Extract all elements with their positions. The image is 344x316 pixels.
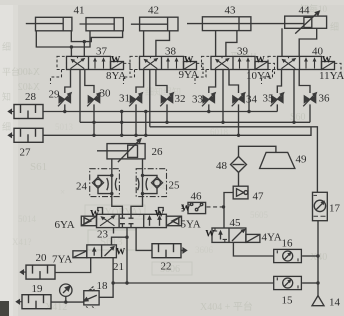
svg-text:44: 44 xyxy=(299,5,311,17)
svg-text:45: 45 xyxy=(230,217,242,229)
interlink riser 2 B1-B4 xyxy=(145,112,147,136)
cylinder C2 (group 41, right) xyxy=(80,18,124,31)
wire throttle31 to bus B4 xyxy=(135,104,137,135)
svg-text:细: 细 xyxy=(2,121,11,132)
svg-text:49: 49 xyxy=(296,154,308,166)
svg-text:X400: X400 xyxy=(18,67,40,78)
svg-text:W: W xyxy=(116,248,126,258)
throttle R31 xyxy=(129,92,143,107)
junction pilot46 xyxy=(222,205,225,208)
bus B2 xyxy=(80,121,310,123)
svg-text:24: 24 xyxy=(76,181,88,193)
wire 48 to muffler 49 xyxy=(239,146,276,156)
svg-text:27: 27 xyxy=(20,147,32,159)
throttle R32 xyxy=(160,92,174,107)
svg-text:26: 26 xyxy=(152,146,164,158)
svg-text:W: W xyxy=(155,210,165,220)
svg-text:10YA: 10YA xyxy=(246,70,272,82)
filter 48 xyxy=(231,157,247,173)
wire C5 rod-end to valve40 xyxy=(299,28,317,56)
valve U40 (solenoid 11YA) xyxy=(262,56,342,84)
bus B1 xyxy=(43,111,277,113)
wire valve38 exhaust down to bus B3 xyxy=(149,70,151,127)
svg-text:S60: S60 xyxy=(290,112,306,123)
junction throttle34/B4 xyxy=(237,134,240,137)
junction gauge/main xyxy=(64,300,67,303)
junction v39rexhaust/B1 xyxy=(247,110,250,113)
cylinder C5 (group 44, with adjustable piston) xyxy=(285,10,327,33)
junction v40exhaust/B2 xyxy=(292,121,295,124)
junction interlink2/B1 xyxy=(144,110,147,113)
svg-text:X412: X412 xyxy=(45,302,67,313)
wire valve37 port A riser xyxy=(70,47,72,56)
svg-text:6YA: 6YA xyxy=(55,219,75,231)
pressure gauge (of 18) xyxy=(60,284,72,302)
svg-text:17: 17 xyxy=(329,203,341,215)
wire 48 down to check valve 47 xyxy=(238,172,240,186)
wire valve39 right exhaust to bus B1 xyxy=(248,70,250,112)
valve23 exhaust hooks xyxy=(98,208,103,215)
svg-text:34: 34 xyxy=(246,94,258,106)
svg-text:W: W xyxy=(255,56,265,66)
svg-text:14: 14 xyxy=(329,297,341,309)
wire throttle33 to bus B1 xyxy=(208,104,210,111)
svg-text:39: 39 xyxy=(237,46,249,58)
pressure regulator 17 xyxy=(313,192,328,220)
wire valve37 portB down to throttle 30 xyxy=(85,70,94,94)
wire throttle32 to bus B2 xyxy=(166,104,168,122)
wire valve21 top to P line xyxy=(112,237,128,245)
valve U39 (solenoid 10YA) xyxy=(195,56,275,84)
svg-text:30: 30 xyxy=(100,88,112,100)
main riser wire 17 to source xyxy=(317,221,319,296)
lubricator 16 xyxy=(274,249,302,262)
wire 26 to unit 25 main line xyxy=(131,159,143,214)
junction throttle32/B2 xyxy=(165,121,168,124)
svg-text:18: 18 xyxy=(97,280,109,292)
svg-text:20: 20 xyxy=(36,252,48,264)
junction P-line/line15 xyxy=(125,281,128,284)
junction throttle29/B1 xyxy=(63,110,66,113)
svg-text:42: 42 xyxy=(148,5,159,17)
wire C3 rod-end to valve38 xyxy=(156,31,170,57)
svg-text:×: × xyxy=(60,187,65,197)
svg-text:31: 31 xyxy=(119,93,130,105)
svg-text:W: W xyxy=(181,204,191,214)
svg-text:W: W xyxy=(322,56,332,66)
svg-text:5YA: 5YA xyxy=(181,219,201,231)
valve23 supply line P down to bottom main xyxy=(126,228,128,283)
svg-text:知: 知 xyxy=(2,91,11,102)
svg-text:41: 41 xyxy=(74,5,85,17)
svg-text:43: 43 xyxy=(225,5,237,17)
wire box20 to valve21 bottom xyxy=(55,258,91,273)
svg-text:8YA: 8YA xyxy=(106,70,126,82)
pressure regulator 18 xyxy=(84,287,99,309)
wire C4 cap to valve39 xyxy=(215,31,217,57)
wire valve39 portA down to throttle 33 xyxy=(209,70,216,94)
svg-text:X404 + 平台: X404 + 平台 xyxy=(200,300,253,313)
svg-text:平台: 平台 xyxy=(2,66,20,77)
check valve 47 xyxy=(233,186,248,199)
svg-text:33: 33 xyxy=(192,94,204,106)
svg-text:22: 22 xyxy=(161,261,172,273)
junction 16/riser xyxy=(316,254,319,257)
air source triangle 14 xyxy=(312,296,324,306)
junction throttle33/B1 xyxy=(207,110,210,113)
junction interlink/B1 xyxy=(120,110,123,113)
junction throttle30/B2 xyxy=(92,121,95,124)
junction throttle30/B4 xyxy=(92,134,95,137)
svg-text:46: 46 xyxy=(191,191,203,203)
valve U38 (solenoid 9YA) xyxy=(124,56,204,84)
wire throttle29 to bus B1 xyxy=(64,104,66,111)
wire C1 rod-end to pipe U xyxy=(71,31,84,42)
svg-text:38: 38 xyxy=(165,46,177,58)
junction v39exhaust/B2 xyxy=(221,121,224,124)
manual valve 46 xyxy=(182,202,206,213)
throttle R29 xyxy=(58,92,72,107)
svg-text:7YA: 7YA xyxy=(52,254,72,266)
valve U37 (solenoid 8YA) xyxy=(51,56,131,84)
valve U21 (solenoid 7YA) xyxy=(73,245,117,258)
wire throttle36 to bus B2 right end xyxy=(309,104,311,122)
muffler 49 xyxy=(260,152,295,168)
junction interlink/B2 xyxy=(120,121,123,124)
wire valve23 portR to box22 xyxy=(136,228,152,251)
junction throttle31/B4 xyxy=(134,134,137,137)
svg-text:25: 25 xyxy=(169,180,181,192)
valve23 port stub left xyxy=(113,228,115,234)
svg-text:5013: 5013 xyxy=(55,122,74,132)
wire box19 to regulator 18 xyxy=(51,301,84,303)
wire valve40 exhaust down to bus B2 xyxy=(293,70,295,123)
valve U45 (solenoid 4YA) xyxy=(212,228,260,242)
limit box S28 xyxy=(14,105,43,119)
wire valve38 portA down to throttle 31 xyxy=(136,70,144,94)
throttle R33 xyxy=(202,92,216,107)
interlink riser B1-B4 xyxy=(121,112,123,136)
svg-text:48: 48 xyxy=(216,160,228,172)
limit box S19 xyxy=(22,295,51,309)
lubricator 15 xyxy=(274,276,302,289)
svg-text:5014: 5014 xyxy=(18,214,37,224)
converter 26 (cylinder with adjustable piston) xyxy=(97,138,145,162)
svg-text:29: 29 xyxy=(49,89,61,101)
svg-text:47: 47 xyxy=(253,191,265,203)
wire valve37 port B riser xyxy=(83,42,85,57)
svg-text:细: 细 xyxy=(2,41,11,52)
svg-text:W: W xyxy=(205,230,215,240)
cylinder C1 (group 41, left) xyxy=(26,17,72,31)
svg-text:15: 15 xyxy=(282,295,294,307)
wire valve39 portB down to throttle 34 xyxy=(229,70,239,94)
limit box S27 xyxy=(14,128,43,142)
junction riser113/line15 xyxy=(111,281,114,284)
cylinder C4 (group 43) xyxy=(187,17,304,31)
svg-text:细: 细 xyxy=(330,21,339,32)
wire throttle35 to bus B1 right end xyxy=(276,104,278,111)
wire valve39 exhaust down to bus B2 xyxy=(222,70,224,123)
throttle R35 xyxy=(271,92,285,107)
wire pipe U to C2 rod-end xyxy=(84,31,122,42)
wire throttle30 to bus B4 xyxy=(93,104,95,135)
valve U23 (5/3, solenoids 6YA/5YA) xyxy=(81,214,181,227)
bus B3 xyxy=(150,127,318,193)
svg-text:37: 37 xyxy=(96,46,108,58)
wire C3 cap to valve38 xyxy=(143,31,145,57)
wire valve38 portB down to throttle 32 xyxy=(156,70,167,94)
svg-text:5605: 5605 xyxy=(250,210,269,220)
svg-text:16: 16 xyxy=(282,238,294,250)
junction valve21/P xyxy=(125,236,128,239)
svg-text:3606: 3606 xyxy=(195,245,214,255)
throttle R34 xyxy=(232,92,246,107)
limit box S20 xyxy=(26,265,55,279)
svg-text:36: 36 xyxy=(319,93,331,105)
svg-text:19: 19 xyxy=(32,283,44,295)
wire valve40 portA down to throttle 35 xyxy=(277,70,281,94)
svg-text:11YA: 11YA xyxy=(319,70,344,82)
wire C5 cap to valve40 xyxy=(281,28,283,56)
limit box S22 xyxy=(152,244,181,258)
throttle R36 xyxy=(303,92,317,107)
wire valve45 bottom to line16 xyxy=(233,242,273,256)
svg-text:X41?: X41? xyxy=(12,237,32,247)
throttle R30 xyxy=(87,92,101,107)
svg-text:S61: S61 xyxy=(30,161,47,173)
svg-text:9YA: 9YA xyxy=(179,69,199,81)
wire valve37 portA down to throttle 29 xyxy=(65,70,71,94)
wire 15 to main riser xyxy=(302,282,318,284)
wire 26 to unit 24 main line xyxy=(112,159,123,214)
svg-text:W: W xyxy=(90,210,100,220)
svg-text:W: W xyxy=(184,56,194,66)
junction interlink/B4 xyxy=(120,134,123,137)
wire regulator18 up to riser 113 xyxy=(99,258,113,298)
cylinder C3 (group 42) xyxy=(131,17,178,31)
junction interlink2/B4 xyxy=(144,134,147,137)
svg-text:23: 23 xyxy=(97,229,109,241)
dashed pilot 46 to valve45 line xyxy=(207,206,223,208)
wire 16 to main riser xyxy=(302,255,318,257)
junction 15/riser xyxy=(316,281,319,284)
scan corner blob xyxy=(0,301,9,316)
svg-text:W: W xyxy=(111,56,121,66)
bus B4 xyxy=(43,127,311,136)
wire throttle34 to bus B4 xyxy=(238,104,240,135)
svg-text:28: 28 xyxy=(25,91,37,103)
box22 right stub arrow xyxy=(181,248,187,252)
svg-text:32: 32 xyxy=(175,93,186,105)
svg-text:21: 21 xyxy=(113,261,124,273)
wire 47 to valve45 top xyxy=(224,193,233,229)
wire C1 cap to valve37 pipe (joins C2 cap) xyxy=(36,31,90,47)
wire C4 rod-end to valve39 xyxy=(226,31,237,57)
wire valve37 exhaust down to bus B2 xyxy=(79,70,81,123)
junction pipeU/portB xyxy=(83,40,86,43)
wire supply line to 15 xyxy=(113,282,274,284)
svg-text:35: 35 xyxy=(263,93,275,105)
FRL unit 25 (orifice + filter) xyxy=(136,169,166,197)
wire valve40 portB down to throttle 36 xyxy=(299,70,310,94)
svg-text:4YA: 4YA xyxy=(262,232,282,244)
junction pipeL xyxy=(70,45,73,48)
FRL unit 24 (filter + orifice) xyxy=(90,169,120,197)
